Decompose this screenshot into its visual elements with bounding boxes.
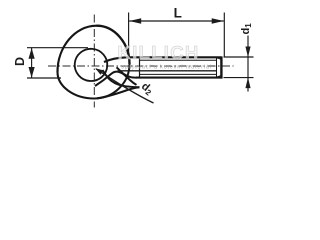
svg-text:L: L [174,5,182,20]
svg-text:D: D [13,57,27,66]
svg-text:KILLICH: KILLICH [118,42,200,63]
svg-text:d1: d1 [240,23,253,35]
svg-text:spojovací a kotevní materiál: spojovací a kotevní materiál [121,64,212,70]
svg-text:d2: d2 [138,80,155,97]
